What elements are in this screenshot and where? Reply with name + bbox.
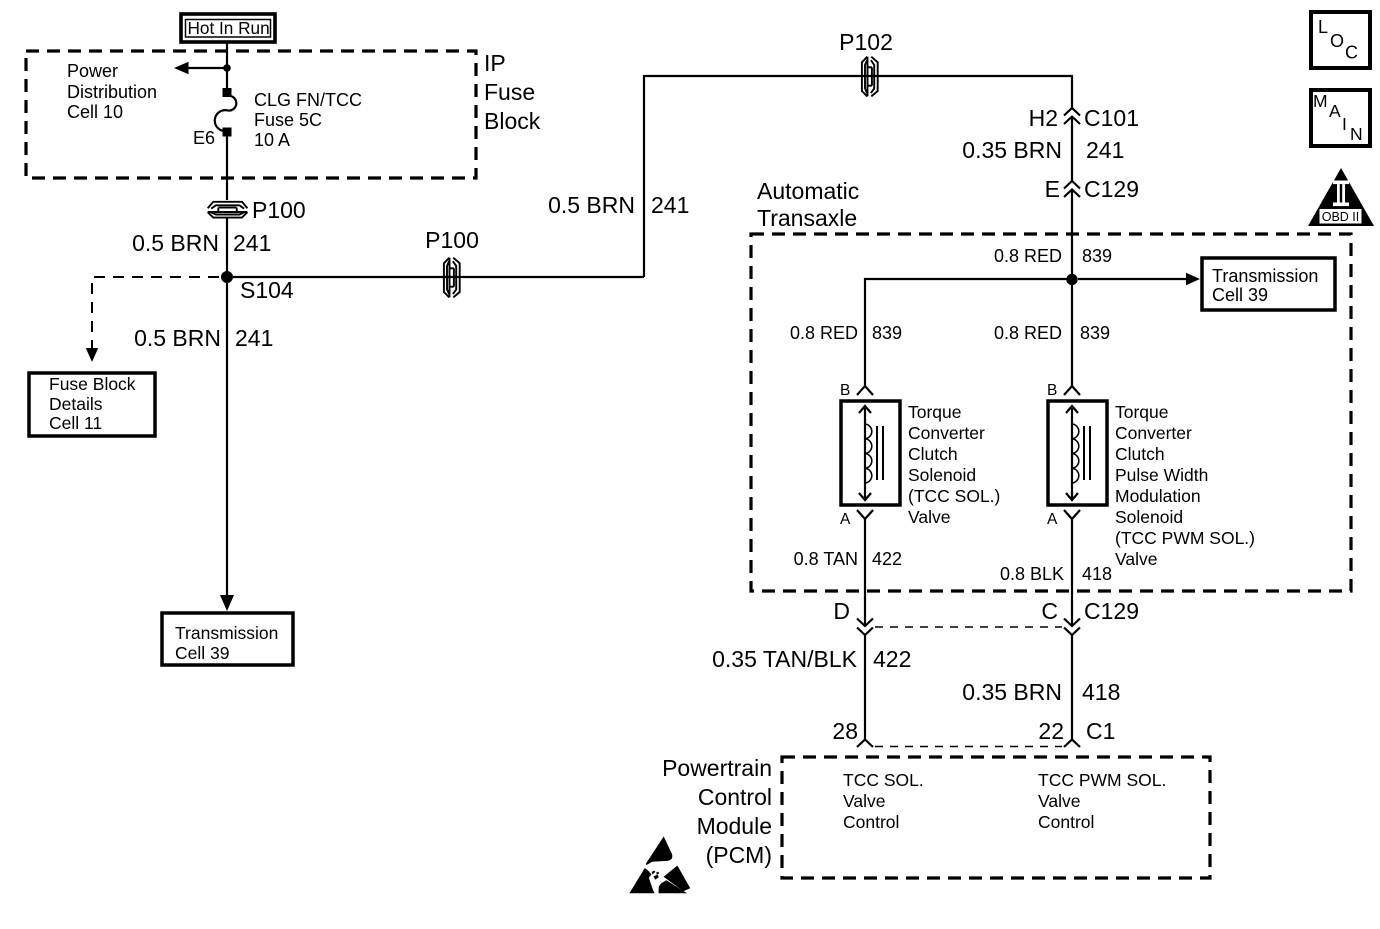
TCC solenoid U1 [841,401,900,505]
svg-text:Transmission: Transmission [1212,266,1318,286]
svg-text:241: 241 [233,230,271,256]
wire label 0.5 BRN 241 (riser) [548,192,689,218]
svg-text:0.5 BRN: 0.5 BRN [548,192,635,218]
svg-text:Torque: Torque [908,402,962,422]
connector C129 body dashed line [875,626,1062,628]
splice node (transaxle) [1066,274,1077,285]
svg-text:Cell 39: Cell 39 [175,643,229,663]
svg-text:28: 28 [832,718,858,744]
svg-text:0.35 BRN: 0.35 BRN [962,679,1062,705]
svg-text:10 A: 10 A [254,130,290,150]
wire label 0.5 BRN 241 (upper left) [132,230,271,256]
wire label 0.8 BLK 418 [1000,564,1112,584]
wire pin D to PCM pin 28 [864,635,866,739]
svg-text:D: D [833,598,850,624]
svg-text:Control: Control [843,812,899,832]
solenoid U1 pin A terminal [840,510,873,528]
ESD sensitive symbol [629,837,690,894]
connector C1 body dashed line [875,746,1062,748]
svg-text:241: 241 [1086,137,1124,163]
svg-text:Cell 10: Cell 10 [67,102,123,122]
PCM internal circuit TCC SOL valve control [843,770,924,832]
splice S104 [221,271,233,283]
svg-text:418: 418 [1082,679,1120,705]
solenoid U2 pin B terminal [1047,382,1080,399]
svg-text:22: 22 [1038,718,1064,744]
grommet P102 (horizontal wire) [862,57,878,97]
svg-text:Solenoid: Solenoid [908,465,976,485]
wire solenoid A to C129 pin D [864,519,866,626]
svg-text:Details: Details [49,394,103,414]
svg-text:Torque: Torque [1115,402,1169,422]
svg-text:Valve: Valve [843,791,885,811]
svg-text:(TCC SOL.): (TCC SOL.) [908,486,1000,506]
power feed box "Hot In Run" [181,14,275,42]
svg-text:C1: C1 [1086,718,1115,744]
wire label 0.5 BRN 241 (lower left) [134,325,273,351]
wire from fuse to grommet P100 [226,136,228,200]
wire from Hot In Run to fuse [226,42,228,89]
LOC locator box [1311,12,1370,68]
svg-text:0.8 RED: 0.8 RED [994,323,1062,343]
svg-text:S104: S104 [240,277,294,303]
svg-text:0.5 BRN: 0.5 BRN [134,325,221,351]
svg-text:0.5 BRN: 0.5 BRN [132,230,219,256]
power distribution branch wire [187,67,227,69]
Automatic Transaxle label [757,178,859,231]
svg-text:Valve: Valve [1115,549,1157,569]
svg-text:O: O [1330,31,1344,51]
svg-text:Fuse Block: Fuse Block [49,374,136,394]
connector C101 pin H2 [1029,105,1139,131]
wire label 0.8 TAN 422 [794,549,902,569]
wire grommet to S104 [226,218,228,277]
svg-text:L: L [1318,17,1328,37]
svg-text:Solenoid: Solenoid [1115,507,1183,527]
wire branch to TCC solenoid [865,279,1072,386]
svg-text:Valve: Valve [1038,791,1080,811]
svg-text:C101: C101 [1084,105,1139,131]
svg-text:Modulation: Modulation [1115,486,1201,506]
svg-text:Power: Power [67,61,118,81]
svg-text:Automatic: Automatic [757,178,859,204]
svg-text:Hot In Run: Hot In Run [188,18,270,38]
svg-text:Control: Control [1038,812,1094,832]
solenoid U1 pin B terminal [840,382,873,399]
svg-text:TCC SOL.: TCC SOL. [843,770,924,790]
automatic transaxle dashed outline [751,234,1351,591]
svg-text:Cell 11: Cell 11 [49,413,102,433]
arrow into transmission cell 39 (right) [1186,273,1200,285]
svg-text:(PCM): (PCM) [706,842,772,868]
arrow to power distribution [174,62,189,74]
svg-text:0.8 TAN: 0.8 TAN [794,549,858,569]
svg-text:M: M [1313,91,1328,111]
wire solenoid A to C129 pin C [1071,519,1073,626]
wire branch to transmission cell 39 [1078,278,1191,280]
transmission cell 39 box (left) [162,613,293,665]
wire pin C to PCM pin 22 [1071,635,1073,739]
connector C129 pin D [833,598,873,635]
svg-text:Fuse 5C: Fuse 5C [254,110,322,130]
svg-text:P100: P100 [252,197,306,223]
svg-text:839: 839 [1082,246,1112,266]
wire label 0.35 BRN 418 [962,679,1120,705]
svg-text:422: 422 [872,549,902,569]
svg-text:I: I [1342,114,1347,134]
TCC PWM solenoid U2 name label [1115,402,1255,569]
riser wire up and across to C101 [644,76,1072,277]
wire S104 down to transmission [226,283,228,597]
svg-text:E: E [1045,176,1060,202]
wire label 0.8 RED 839 (right branch) [994,323,1110,343]
junction dot at fuse feed [223,64,231,72]
wire label 0.35 TAN/BLK 422 [712,646,911,672]
svg-text:OBD II: OBD II [1322,210,1360,224]
svg-text:Transaxle: Transaxle [757,205,857,231]
svg-text:C129: C129 [1084,176,1139,202]
svg-text:Powertrain: Powertrain [662,755,772,781]
svg-text:Fuse: Fuse [484,79,535,105]
svg-text:0.8 BLK: 0.8 BLK [1000,564,1064,584]
connector C1 pin 22 [1038,718,1115,747]
svg-text:422: 422 [873,646,911,672]
svg-text:241: 241 [651,192,689,218]
fuse 5C (CLG FN/TCC 10A) [215,88,237,137]
svg-text:P100: P100 [425,227,479,253]
wire C129 to splice [1071,190,1073,281]
svg-text:Clutch: Clutch [1115,444,1165,464]
connector C129 pin C [1041,598,1139,635]
svg-text:0.8 RED: 0.8 RED [790,323,858,343]
svg-text:(TCC PWM SOL.): (TCC PWM SOL.) [1115,528,1255,548]
svg-text:Converter: Converter [908,423,985,443]
wire S104 to right riser [233,276,644,278]
svg-text:Cell 39: Cell 39 [1212,285,1268,305]
IP Fuse Block label [484,50,541,134]
svg-text:Distribution: Distribution [67,82,157,102]
TCC PWM solenoid U2 [1048,401,1107,505]
PCM dashed outline [782,757,1210,878]
svg-text:IP: IP [484,50,506,76]
svg-text:Control: Control [698,784,772,810]
svg-text:Block: Block [484,108,541,134]
grommet P100 (horizontal wire) [444,258,460,298]
fuse value label [254,90,362,150]
svg-text:Converter: Converter [1115,423,1192,443]
svg-text:A: A [1047,511,1058,528]
svg-text:C: C [1041,598,1058,624]
PCM internal circuit TCC PWM SOL valve control [1038,770,1166,832]
OBD II badge [1308,168,1374,226]
solenoid U2 pin A terminal [1047,510,1080,528]
svg-text:E6: E6 [193,128,215,148]
arrow into transmission cell 39 [220,595,234,611]
transmission cell 39 box (right) [1202,258,1335,310]
svg-text:P102: P102 [839,29,893,55]
IP fuse block dashed outline [26,51,476,178]
svg-text:Clutch: Clutch [908,444,958,464]
svg-text:241: 241 [235,325,273,351]
svg-text:C: C [1345,43,1358,63]
svg-text:CLG FN/TCC: CLG FN/TCC [254,90,362,110]
wire C101 to C129 [1071,117,1073,182]
svg-text:0.35 TAN/BLK: 0.35 TAN/BLK [712,646,858,672]
svg-text:Module: Module [697,813,772,839]
svg-text:TCC PWM SOL.: TCC PWM SOL. [1038,770,1166,790]
svg-text:839: 839 [872,323,902,343]
wire label 0.8 RED 839 (left branch) [790,323,902,343]
wire label 0.8 RED 839 (top) [994,246,1112,266]
svg-text:418: 418 [1082,564,1112,584]
svg-text:Pulse Width: Pulse Width [1115,465,1208,485]
svg-text:N: N [1350,124,1363,144]
svg-text:0.35 BRN: 0.35 BRN [962,137,1062,163]
svg-text:839: 839 [1080,323,1110,343]
svg-text:0.8 RED: 0.8 RED [994,246,1062,266]
svg-text:A: A [1329,101,1341,121]
dashed leader to fuse block details [86,277,219,362]
connector C129 pin E [1045,176,1139,202]
connector C1 pin 28 [832,718,873,747]
svg-text:Valve: Valve [908,507,950,527]
svg-text:A: A [840,511,851,528]
MAIN locator box [1311,90,1370,146]
Power Distribution Cell 10 label [67,61,157,122]
wire down to TCC PWM solenoid [1071,280,1073,386]
svg-text:Transmission: Transmission [175,623,278,643]
svg-text:C129: C129 [1084,598,1139,624]
fuse block details box [29,373,155,436]
grommet P100 (vertical wire) [208,202,248,218]
svg-text:B: B [840,382,850,399]
svg-text:H2: H2 [1029,105,1058,131]
PCM name label [662,755,772,868]
TCC solenoid U1 name label [908,402,1000,527]
wire label 0.35 BRN 241 [962,137,1124,163]
svg-text:B: B [1047,382,1057,399]
